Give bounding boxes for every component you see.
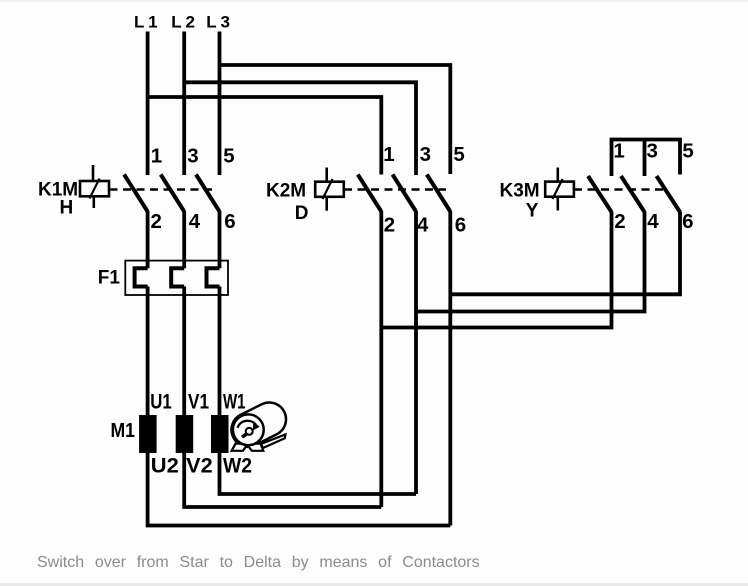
wire K1M pole1 to F1 [146,211,150,268]
K3M actuator dashed link [574,188,666,190]
K2M contact pole 5-6 blade [427,175,451,212]
wire K1M pole3 to F1 [218,211,222,268]
motor winding terminal U [139,415,157,453]
bottom border line [0,583,748,586]
wire K3M pole6 to K2M pole5 [450,212,680,295]
svg-text:M1: M1 [111,420,136,442]
svg-text:L2: L2 [171,13,198,32]
svg-text:5: 5 [223,144,234,167]
svg-text:2: 2 [384,213,395,236]
wire L3 vertical drop [218,32,222,176]
wire V2 to K2M pole1 [184,453,381,507]
wire F1 to motor V1 [182,287,186,417]
svg-text:H: H [60,198,74,219]
K2M contact pole 1-2 blade [358,175,382,212]
K3M star bridge bar [612,140,681,177]
svg-text:Switch over from Star to Delta: Switch over from Star to Delta by means … [37,554,480,571]
motor icon [226,397,292,453]
wire L1 branch to K2M pole 1 [148,97,382,175]
K1M contact pole 1-2 blade [124,175,148,212]
svg-text:2: 2 [614,210,625,233]
svg-text:V1: V1 [188,391,209,414]
svg-text:2: 2 [151,210,162,233]
F1 heater element 3 [207,268,220,286]
svg-text:4: 4 [189,210,201,233]
svg-text:U2: U2 [151,455,179,478]
svg-text:U1: U1 [150,391,172,414]
top border line [0,0,748,2]
svg-text:5: 5 [682,140,693,163]
svg-text:V2: V2 [186,455,213,478]
overload relay F1 box [125,261,228,295]
svg-text:3: 3 [420,143,431,166]
wire K3M pole4 to K2M pole3 [416,212,645,312]
svg-text:1: 1 [383,143,394,166]
wire K3M pole2 to K2M pole1 [381,212,611,328]
svg-text:W2: W2 [223,455,252,478]
wire L2 branch to K2M pole 3 [184,82,416,175]
wire F1 to motor W1 [218,287,222,417]
motor winding terminal W [211,415,229,453]
svg-text:K2M: K2M [266,181,306,202]
wire K2M pole5 down to U2 link [448,211,452,526]
svg-text:5: 5 [453,143,464,166]
wire L2 vertical drop [182,32,186,176]
svg-text:Y: Y [526,201,539,222]
svg-text:1: 1 [613,140,624,163]
wire F1 to motor U1 [146,287,150,417]
svg-text:1: 1 [151,144,162,167]
wire L1 vertical drop [146,32,150,176]
svg-text:F1: F1 [98,268,121,289]
K2M actuator dashed link [344,188,446,190]
K1M contact pole 3-4 blade [161,175,185,212]
K3M contact pole 5-6 blade [657,176,681,212]
svg-text:3: 3 [647,140,658,163]
contactor K2M coil [315,168,344,211]
wire L3 branch to K2M pole 5 [220,65,451,174]
wire K1M pole2 to F1 [182,211,186,268]
contactor K3M coil [545,168,574,211]
motor winding terminal V [176,415,194,453]
K3M contact pole 1-2 blade [588,176,612,212]
wire U2 to K2M pole5 [148,453,451,526]
wire K2M pole1 down to V2 link [379,211,383,507]
K1M actuator dashed link [110,188,217,190]
K3M star bridge middle stub [643,140,647,177]
svg-text:4: 4 [417,213,429,236]
svg-text:6: 6 [455,213,466,236]
svg-text:W1: W1 [223,391,246,414]
svg-text:D: D [295,203,309,224]
K3M contact pole 3-4 blade [621,176,645,212]
svg-text:6: 6 [682,210,693,233]
F1 heater element 2 [171,268,184,286]
contactor K1M coil [80,165,109,208]
F1 heater element 1 [135,268,148,286]
svg-text:L1: L1 [134,13,161,32]
svg-text:4: 4 [647,210,659,233]
svg-text:6: 6 [224,210,235,233]
wire K2M pole3 down to W2 link [414,211,418,494]
svg-text:3: 3 [187,144,198,167]
K1M contact pole 5-6 blade [196,175,220,212]
K2M contact pole 3-4 blade [393,175,417,212]
svg-text:K3M: K3M [500,181,540,202]
svg-text:L3: L3 [206,13,233,32]
wire W2 to K2M pole3 [220,453,417,494]
